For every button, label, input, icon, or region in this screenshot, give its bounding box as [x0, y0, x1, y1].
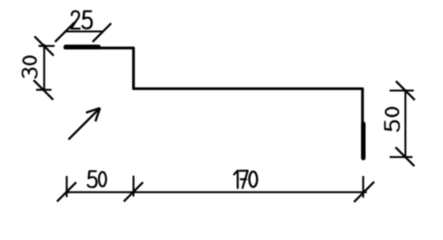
dimension 25: right tick	[93, 23, 112, 42]
direction arrow: shaft	[69, 108, 101, 140]
dimension 30: value text (rotated)	[22, 57, 36, 78]
top hem (folded edge, thick)	[66, 45, 99, 50]
bottom dimension: middle tick	[124, 182, 143, 201]
dimension 30: top tick	[35, 36, 54, 55]
right hem (folded edge, thick)	[361, 124, 366, 158]
profile main outline	[65, 48, 363, 158]
dimension 50 right: value text (rotated)	[385, 108, 399, 131]
dimension 30: bottom extension line	[36, 89, 52, 91]
direction arrow: lower barb	[95, 108, 100, 121]
bottom dimension: right tick	[354, 182, 374, 202]
bottom dimension chain: dimension line	[66, 191, 367, 193]
direction arrow: left barb	[86, 108, 100, 113]
bottom dimension: left extension line	[66, 176, 68, 197]
bottom dimension: left tick	[57, 182, 76, 201]
dimension 50 right: bottom tick	[396, 147, 415, 166]
dimension 30: top extension line	[39, 45, 55, 47]
bottom dimension: middle extension line	[133, 176, 135, 197]
dimension 50 right: bottom extension line	[390, 156, 413, 158]
dimension 30: bottom tick	[34, 80, 54, 100]
dimension 50 right: top tick	[396, 81, 415, 100]
bottom dimension: value 170 text	[234, 171, 257, 188]
bottom dimension: value 50 text	[88, 171, 106, 187]
dimension 50 right: top extension line	[390, 90, 414, 92]
dimension 25: value text	[71, 11, 92, 29]
dimension 25: dimension line	[65, 30, 104, 32]
dimension 25: left tick	[55, 22, 75, 42]
bottom dimension: right extension line	[362, 176, 364, 198]
dimension 30: dimension line	[43, 44, 45, 90]
dimension 50 right: dimension line	[404, 91, 406, 158]
